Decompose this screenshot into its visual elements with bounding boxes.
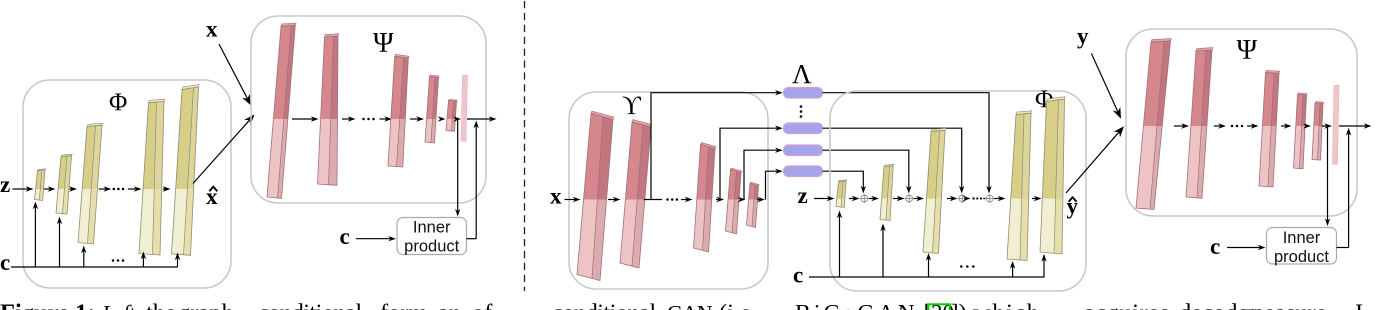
svg-text:c: c bbox=[0, 250, 10, 275]
latent bar L4 (purple) bbox=[784, 166, 823, 177]
wire c to G4 bbox=[142, 257, 144, 268]
svg-text:I: I bbox=[1355, 300, 1363, 310]
wire bar 1 to oplus 4 bbox=[823, 93, 990, 189]
wire c to inner product (left) bbox=[356, 238, 391, 240]
wire oplus 2 to F3 bbox=[914, 198, 919, 200]
output wire of discriminator (left) bbox=[467, 118, 492, 120]
wire H1 to H2 bbox=[1174, 125, 1184, 127]
wire inner product to output bbox=[475, 126, 477, 239]
ellipsis on discriminator flow (right) bbox=[1231, 125, 1234, 128]
generator box Phi (left) bbox=[23, 80, 231, 288]
wire F1 to oplus 1 bbox=[849, 198, 855, 200]
svg-text:graph: graph bbox=[178, 300, 234, 310]
wire H3 to H4 bbox=[1281, 125, 1287, 127]
conv layer G1 (yellow) bbox=[35, 169, 46, 201]
wire G1 to G2 bbox=[44, 188, 51, 190]
disc layer H1 (red, right) bbox=[1136, 39, 1171, 210]
svg-text:c: c bbox=[1210, 234, 1220, 259]
svg-text:Left:: Left: bbox=[101, 301, 141, 310]
dec layer F5 (yellow) bbox=[1040, 97, 1065, 254]
discriminator box Psi (left) bbox=[251, 16, 486, 203]
dec layer F4 (yellow) bbox=[1007, 111, 1032, 261]
wire c to F2 bbox=[882, 229, 884, 278]
svg-text:Λ: Λ bbox=[792, 59, 812, 89]
wire c to G2 bbox=[59, 222, 61, 268]
wire E3 to E4 bbox=[716, 199, 719, 201]
disc layer D4 (red) bbox=[425, 75, 439, 143]
wire inner product to output (right) bbox=[1348, 133, 1350, 248]
tap wire E2 to Lambda bar 1 bbox=[651, 93, 778, 200]
wire c to F4 bbox=[1012, 266, 1014, 277]
svg-text:conditional: conditional bbox=[258, 300, 362, 310]
svg-text:Inner: Inner bbox=[1283, 229, 1321, 247]
svg-text:z: z bbox=[798, 183, 808, 208]
conv layer G3 (yellow) bbox=[78, 123, 103, 244]
enc layer E5 (red) bbox=[747, 182, 760, 227]
svg-text:of: of bbox=[472, 300, 493, 310]
wire G3 to ellipsis bbox=[99, 188, 107, 190]
wire bar 2 to oplus 3 bbox=[823, 128, 962, 188]
enc layer E4 (red) bbox=[726, 168, 742, 234]
wire G4 to G5 bbox=[163, 188, 166, 190]
svg-text:form: form bbox=[380, 300, 428, 310]
oplus 1 bbox=[860, 194, 869, 203]
svg-text:Ψ: Ψ bbox=[373, 28, 394, 59]
wire c to G5 bbox=[177, 258, 179, 268]
feature vector slab (light red, right) bbox=[1333, 85, 1340, 165]
wire ellipsis to H3 bbox=[1247, 125, 1254, 127]
oplus 4 bbox=[985, 194, 994, 203]
wire E2 to ellipsis bbox=[644, 199, 662, 201]
wire H2 to ellipsis bbox=[1214, 125, 1221, 127]
tap wire E5 to Lambda bar 4 bbox=[766, 171, 778, 199]
conv layer G5 (yellow) bbox=[172, 85, 200, 256]
wire G2 to G3 bbox=[70, 188, 73, 190]
svg-text:1:: 1: bbox=[75, 300, 95, 310]
wire ellipsis to D3 bbox=[380, 118, 388, 120]
svg-text:c: c bbox=[340, 224, 350, 249]
ellipsis on generator flow bbox=[113, 188, 116, 191]
wire inner product right elbow (left) bbox=[467, 238, 477, 240]
encoder box Upsilon bbox=[569, 92, 768, 289]
svg-text:conditional: conditional bbox=[552, 300, 656, 310]
wire F2 to oplus 2 bbox=[893, 198, 900, 200]
wire c to inner product (right) bbox=[1227, 247, 1261, 249]
ellipsis on discriminator flow (left) bbox=[362, 118, 365, 121]
svg-text:y: y bbox=[1077, 24, 1089, 49]
discriminator box Psi (right) bbox=[1126, 29, 1357, 216]
svg-text:Ψ: Ψ bbox=[1237, 35, 1258, 66]
svg-text:which: which bbox=[973, 300, 1040, 310]
wire E5 to tap bbox=[757, 199, 760, 201]
wire H4 to H5 bbox=[1306, 125, 1308, 127]
svg-text:GAN: GAN bbox=[667, 301, 713, 310]
svg-text:x: x bbox=[550, 184, 562, 209]
wire oplus 4 to F4 bbox=[994, 198, 1000, 200]
wire c to F3 bbox=[928, 258, 930, 277]
feature vector slab (light red) bbox=[461, 75, 468, 142]
wire y to discriminator (right) bbox=[1091, 54, 1118, 113]
output wire of discriminator (right) bbox=[1339, 125, 1367, 127]
wire feature to inner product bbox=[457, 119, 459, 212]
svg-text:BiCoGAN: BiCoGAN bbox=[795, 301, 918, 310]
wire D5 to feature vector bbox=[455, 118, 457, 120]
svg-text:x: x bbox=[206, 16, 218, 41]
wire z to F1 bbox=[814, 198, 830, 200]
conv layer G2 (yellow) bbox=[56, 154, 72, 214]
wire E1 to E2 bbox=[608, 199, 616, 201]
svg-text:Φ: Φ bbox=[109, 89, 127, 116]
ellipsis on decoder flow bbox=[972, 197, 974, 199]
ellipsis on encoder flow bbox=[666, 198, 669, 201]
svg-text:product: product bbox=[1274, 248, 1329, 266]
disc layer H4 (red, right) bbox=[1294, 93, 1308, 169]
wire D3 to D4 bbox=[410, 118, 419, 120]
dashed separator line bbox=[524, 1, 526, 291]
wire c to G3 bbox=[83, 251, 85, 268]
disc layer H5 (red, right) bbox=[1312, 102, 1324, 161]
svg-text:the: the bbox=[146, 300, 176, 310]
wire D4 to D5 bbox=[439, 118, 442, 120]
dec layer F2 (yellow) bbox=[880, 164, 894, 220]
wire c to G1 bbox=[34, 207, 36, 268]
svg-text:ϒ: ϒ bbox=[622, 91, 642, 120]
wire x-hat to discriminator bbox=[193, 120, 250, 184]
latent bar L1 (purple) bbox=[784, 88, 823, 99]
wire E4 to E5 bbox=[741, 199, 743, 201]
inner product box (right) bbox=[1267, 228, 1337, 265]
condition bus c (right) bbox=[809, 255, 1044, 277]
condition bus c (left) bbox=[11, 266, 178, 268]
svg-text:Figure: Figure bbox=[0, 300, 69, 310]
dec layer F1 (yellow) bbox=[836, 180, 847, 207]
figure caption (clipped at bottom) bbox=[0, 300, 1363, 310]
inner product box (left) bbox=[397, 218, 467, 255]
ellipsis on condition bus (left) bbox=[112, 259, 115, 262]
conv layer G4 (yellow) bbox=[139, 99, 165, 255]
wire feature to inner product (right) bbox=[1327, 126, 1329, 221]
wire ellipsis to E3 bbox=[681, 199, 688, 201]
disc layer H2 (red, right) bbox=[1186, 48, 1213, 199]
wire oplus 1 to F2 bbox=[869, 198, 874, 200]
wire x to discriminator bbox=[219, 44, 248, 99]
wire ellipsis to G4 bbox=[128, 188, 137, 190]
oplus 2 bbox=[905, 194, 914, 203]
tap wire E3 to Lambda bar 2 bbox=[720, 128, 778, 199]
latent bar L3 (purple) bbox=[784, 145, 823, 156]
decoder box Phi (right) bbox=[830, 91, 1086, 291]
wire D1 to D2 bbox=[292, 118, 314, 120]
green citation link box bbox=[928, 304, 950, 310]
wire oplus 3 to ellipsis bbox=[966, 198, 967, 200]
wire D2 to ellipsis bbox=[342, 118, 351, 120]
svg-text:(i.e.,: (i.e., bbox=[719, 300, 763, 310]
enc layer E1 (red) bbox=[577, 111, 614, 280]
latent bar L2 (purple) bbox=[784, 123, 823, 134]
svg-text:]): ]) bbox=[951, 300, 967, 310]
disc layer D2 (red) bbox=[318, 34, 339, 186]
svg-text:product: product bbox=[404, 238, 459, 256]
oplus 3 bbox=[958, 194, 967, 203]
svg-text:c: c bbox=[793, 263, 803, 288]
disc layer D1 (red) bbox=[267, 23, 296, 199]
wire bar 4 to oplus 1 bbox=[823, 171, 864, 188]
svg-text:Inner: Inner bbox=[413, 219, 451, 237]
wire y-hat to discriminator (right) bbox=[1066, 132, 1119, 193]
enc layer E3 (red) bbox=[694, 143, 716, 252]
tap wire E4 to Lambda bar 3 bbox=[744, 150, 778, 199]
wire z to layer 1 bbox=[13, 188, 29, 190]
disc layer D3 (red) bbox=[388, 54, 409, 167]
svg-text:z: z bbox=[0, 172, 10, 197]
disc layer H3 (red, right) bbox=[1259, 70, 1280, 187]
wire ellipsis to oplus 4 bbox=[983, 198, 986, 200]
wire F3 to oplus 3 bbox=[947, 198, 953, 200]
enc layer E2 (red) bbox=[620, 120, 652, 268]
ellipsis on condition bus (right) bbox=[960, 265, 963, 268]
wire H5 to feature vector (right) bbox=[1322, 125, 1327, 127]
dec layer F3 (yellow) bbox=[923, 128, 946, 253]
wire inner product right elbow (right) bbox=[1337, 247, 1349, 249]
wire F4 to F5 bbox=[1032, 198, 1037, 200]
wire x to E1 bbox=[565, 199, 576, 201]
vertical ellipsis between bars bbox=[800, 105, 803, 108]
disc layer D5 (red) bbox=[446, 99, 457, 131]
wire bar 3 to oplus 2 bbox=[823, 150, 909, 188]
svg-text:an: an bbox=[438, 300, 461, 310]
svg-text:acquires: acquires bbox=[1084, 300, 1170, 310]
svg-text:measure: measure bbox=[1245, 300, 1327, 310]
wire c to F1 bbox=[839, 216, 841, 278]
